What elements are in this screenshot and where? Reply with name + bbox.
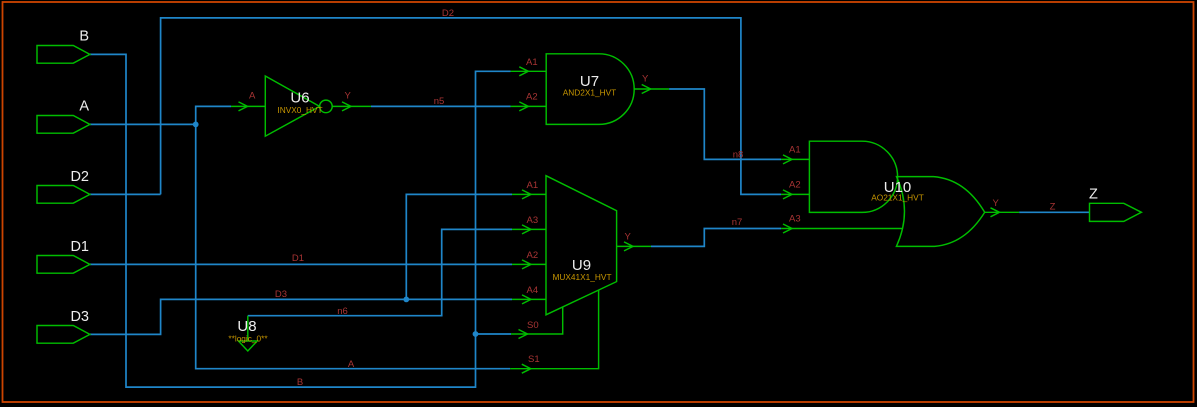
svg-text:A3: A3	[527, 215, 539, 226]
U7 input stub A2	[511, 105, 547, 107]
U9 select stub S1	[510, 290, 598, 369]
U9 output arrow	[624, 242, 633, 251]
svg-text:D1: D1	[70, 239, 89, 255]
wire net A to inverter	[196, 106, 231, 124]
wire net Z	[1019, 211, 1089, 213]
svg-text:AO21X1_HVT: AO21X1_HVT	[871, 192, 924, 202]
svg-text:A3: A3	[789, 214, 801, 225]
svg-text:INVX0_HVT: INVX0_HVT	[277, 105, 322, 115]
U7 A2 arrow	[519, 102, 528, 111]
U10 output stub Y	[985, 211, 1020, 213]
svg-text:AND2X1_HVT: AND2X1_HVT	[563, 87, 617, 97]
svg-text:B: B	[79, 29, 89, 45]
U10 A1 arrow	[783, 155, 792, 164]
svg-text:Y: Y	[642, 74, 649, 85]
svg-text:A1: A1	[526, 57, 538, 68]
wire net n6	[248, 229, 512, 315]
and-gate U7 body	[546, 54, 634, 125]
wire net D2 port to corner	[90, 193, 161, 195]
svg-text:MUX41X1_HVT: MUX41X1_HVT	[552, 272, 611, 282]
svg-text:n6: n6	[337, 306, 348, 317]
svg-text:n7: n7	[732, 217, 743, 228]
junction node A	[193, 122, 199, 128]
port D1	[37, 256, 90, 274]
inverter U6 bubble	[320, 100, 333, 113]
svg-text:n5: n5	[434, 96, 445, 107]
port B	[37, 46, 90, 64]
svg-text:A2: A2	[789, 179, 801, 190]
U9 S1 arrow	[522, 364, 531, 373]
wire net B stub to S0	[476, 333, 512, 335]
tie-low U8 triangle	[238, 341, 257, 351]
wire net D3	[90, 299, 512, 334]
junction node B/S0	[473, 331, 479, 337]
wire net A bottom rail to S1	[196, 124, 511, 368]
junction node D3	[403, 297, 409, 303]
svg-text:A: A	[249, 91, 256, 102]
U9 A2 arrow	[522, 260, 531, 269]
mux U9 body	[546, 176, 617, 315]
U9 input stub A1	[512, 193, 546, 195]
svg-text:D1: D1	[292, 253, 304, 264]
svg-text:D3: D3	[70, 309, 89, 325]
svg-text:n8: n8	[733, 149, 744, 160]
port D3	[37, 326, 90, 344]
svg-text:B: B	[297, 377, 303, 388]
svg-text:A2: A2	[527, 250, 539, 261]
U6 output arrow	[342, 102, 351, 111]
U9 A1 arrow	[522, 190, 531, 199]
wire net D2 top rail	[161, 18, 781, 195]
svg-text:Y: Y	[993, 198, 1000, 209]
wire net n7	[651, 229, 781, 247]
and-or gate U10 AND body	[809, 141, 897, 212]
U9 S0 arrow	[519, 330, 528, 339]
U9 input stub A4	[512, 298, 546, 300]
port D2	[37, 186, 90, 204]
svg-text:D3: D3	[275, 289, 287, 300]
svg-text:A: A	[348, 359, 355, 370]
svg-text:D2: D2	[70, 169, 89, 185]
svg-text:A1: A1	[527, 180, 539, 191]
wire net D3 branch to mux A1	[406, 194, 512, 299]
U10 output arrow	[991, 208, 1000, 217]
svg-text:**logic_0**: **logic_0**	[228, 333, 268, 343]
wire net A from port	[90, 123, 196, 125]
svg-text:A1: A1	[789, 144, 801, 155]
svg-text:A: A	[79, 99, 89, 115]
svg-text:Y: Y	[625, 232, 632, 243]
wire net B main	[90, 54, 511, 387]
U6 input stub A	[231, 105, 265, 107]
svg-text:Y: Y	[345, 91, 352, 102]
U10 input stub A2	[781, 193, 809, 195]
U7 A1 arrow	[519, 67, 528, 76]
U9 input stub A2	[512, 263, 546, 265]
U10 A3 arrow	[783, 224, 792, 233]
U10 OR body	[896, 177, 984, 247]
U9 A4 arrow	[522, 295, 531, 304]
svg-text:A4: A4	[527, 285, 539, 296]
svg-text:S0: S0	[527, 320, 539, 331]
U9 input stub A3	[512, 228, 546, 230]
tie-low U8 stem	[247, 316, 249, 341]
inverter U6 body	[265, 76, 319, 136]
U7 output stub Y	[634, 88, 669, 90]
U9 output stub Y	[617, 245, 651, 247]
U9 A3 arrow	[522, 225, 531, 234]
svg-text:D2: D2	[442, 8, 454, 19]
wire net n5	[371, 105, 511, 107]
U6 input arrow	[239, 102, 248, 111]
port A	[37, 116, 90, 134]
wire net n8	[669, 89, 781, 159]
svg-text:Z: Z	[1050, 202, 1056, 213]
U6 output stub Y	[332, 105, 371, 107]
svg-text:A2: A2	[526, 92, 538, 103]
svg-text:S1: S1	[528, 354, 540, 365]
U7 output arrow	[642, 85, 651, 94]
svg-text:Z: Z	[1089, 187, 1098, 203]
U10 A2 arrow	[783, 190, 792, 199]
U10 input stub A1	[781, 158, 809, 160]
U10 input stub A3	[781, 228, 903, 230]
U7 input stub A1	[511, 70, 547, 72]
wire net D1	[90, 263, 512, 265]
port Z	[1090, 203, 1142, 221]
U9 select stub S0	[511, 307, 563, 334]
